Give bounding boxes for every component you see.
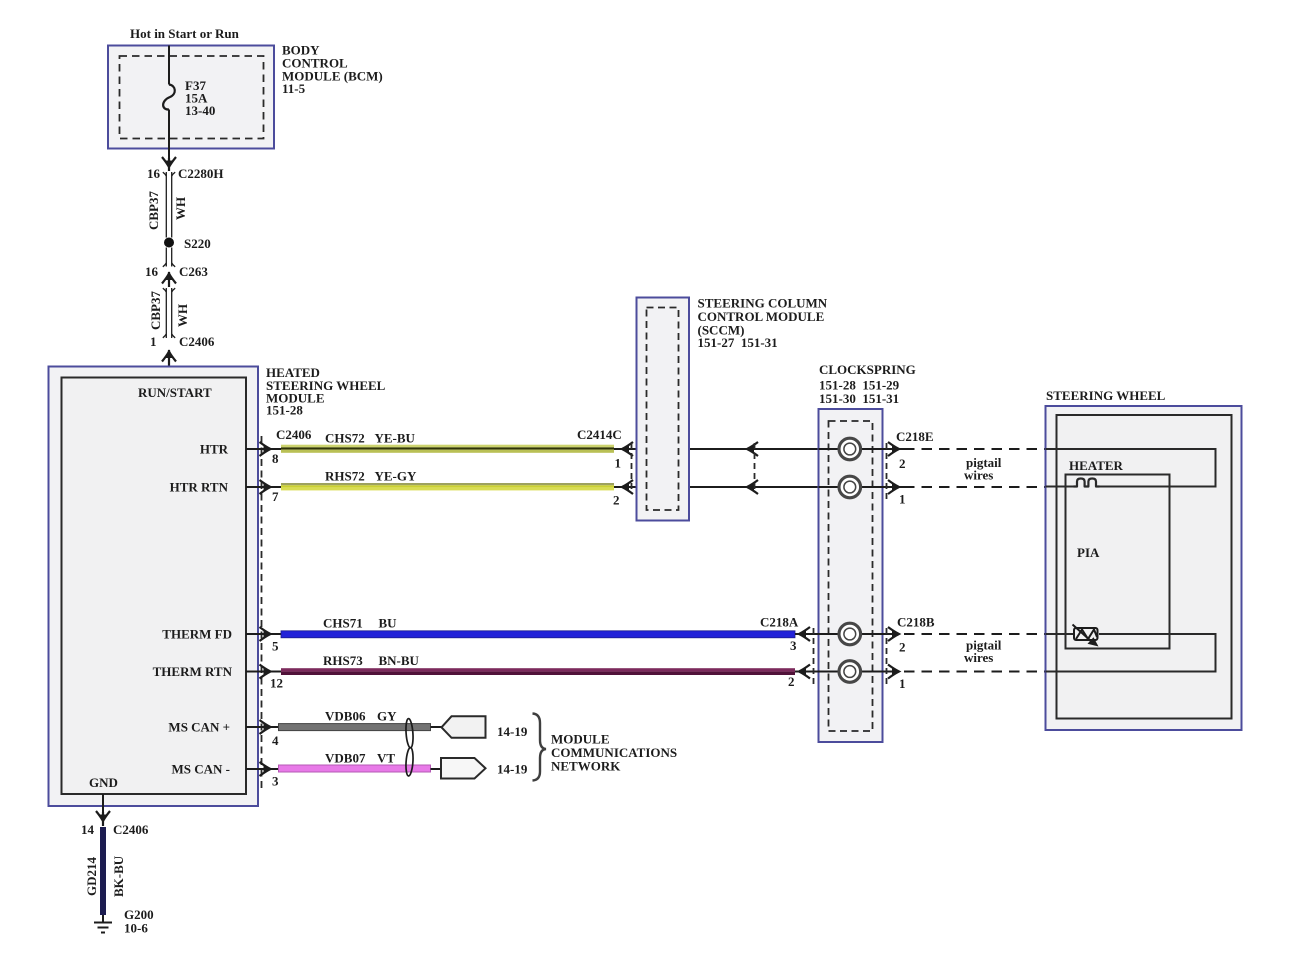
clockspring inner dashed box [829, 421, 873, 731]
svg-text:1: 1 [150, 334, 157, 349]
svg-text:16: 16 [147, 166, 161, 181]
svg-text:GND: GND [89, 775, 118, 790]
svg-text:14-19: 14-19 [497, 724, 528, 739]
wire CBP37 WH (double line) BCM to S220 [166, 172, 171, 238]
wire CHS71 BU [281, 631, 795, 638]
svg-text:C2280H: C2280H [178, 166, 224, 181]
svg-text:13-40: 13-40 [185, 103, 215, 118]
thermistor loop wiring [1046, 634, 1216, 672]
wire: feed into fuse [168, 46, 170, 85]
svg-text:BU: BU [379, 616, 398, 631]
wire: pigtail dashed HTR to wheel [904, 448, 1046, 450]
svg-text:2: 2 [899, 640, 906, 655]
svg-text:HEATER: HEATER [1069, 458, 1124, 473]
wire GD214 BK-BU [100, 827, 106, 915]
heater element (resistive squiggle) [1074, 479, 1100, 487]
steering wheel inner box [1057, 415, 1232, 719]
connector C2406 dashed face line [261, 436, 263, 791]
svg-text:PIA: PIA [1077, 545, 1100, 560]
connector arrow left C218A pin2 [799, 665, 810, 679]
PIA box [1066, 475, 1170, 649]
connector arrow right MS CAN + [260, 720, 271, 734]
wire: S220 to C263 (double line) [166, 248, 171, 267]
svg-text:5: 5 [272, 639, 279, 654]
svg-text:151-27 151-31: 151-27 151-31 [698, 335, 778, 350]
wire: HTR RTN pin lead [246, 486, 281, 488]
wire: pigtail dashed HTR RTN to wheel [904, 486, 1046, 488]
connector arrow up at C2406 [162, 350, 176, 366]
svg-text:C2406: C2406 [179, 334, 215, 349]
wire flares at C263 top [163, 263, 175, 267]
svg-text:1: 1 [899, 676, 906, 691]
svg-text:RHS72: RHS72 [325, 469, 365, 484]
svg-text:CHS71: CHS71 [323, 616, 363, 631]
wire RHS72 YE-GY [281, 483, 614, 490]
module U3: SCCM outer box [637, 298, 690, 521]
wire: GND stem out of module [102, 794, 104, 812]
svg-text:C263: C263 [179, 264, 208, 279]
svg-text:S220: S220 [184, 236, 211, 251]
wire: HTR thin line through SCCM to clockspring [614, 448, 905, 450]
connector arrow right C218E pin1 [888, 480, 899, 494]
svg-text:1: 1 [615, 456, 622, 471]
svg-text:14: 14 [81, 822, 95, 837]
svg-text:MS CAN -: MS CAN - [172, 762, 231, 777]
wire: MS CAN - pin lead [246, 768, 281, 770]
clockspring terminal row3 [839, 623, 861, 645]
wire flares at C2280H [163, 172, 175, 176]
connector arrow up at C263 [162, 272, 176, 287]
svg-text:1: 1 [899, 492, 906, 507]
inline connector arrows mid-span HTR [747, 442, 758, 456]
connector arrow right THERM FD [260, 627, 271, 641]
svg-text:10-6: 10-6 [124, 921, 148, 936]
connector arrow right HTR RTN [260, 480, 271, 494]
svg-text:7: 7 [272, 489, 279, 504]
connector arrow down at C2280H [162, 157, 176, 171]
connector C2414C dashed face [631, 443, 633, 493]
wire: HTR RTN thin line through SCCM to clockspring [614, 486, 905, 488]
svg-text:C218E: C218E [896, 429, 934, 444]
wire flares above C2406 label [163, 334, 175, 338]
off-page connector (left-pointing) MS CAN + [442, 716, 486, 738]
svg-text:2: 2 [613, 493, 620, 508]
svg-text:12: 12 [270, 676, 283, 691]
connector arrow right C218B pin2 [888, 627, 899, 641]
connector arrow left C2414C pin2 [622, 480, 633, 494]
mid connector dashed face [754, 443, 756, 493]
wire RHS73 BN-BU [281, 668, 795, 675]
wire: HTR pin lead [246, 448, 281, 450]
svg-text:3: 3 [272, 774, 279, 789]
svg-text:C2406: C2406 [276, 427, 312, 442]
wire flares below C263 arrow [163, 288, 175, 292]
connector arrow left C218A pin3 [799, 627, 810, 641]
svg-text:VT: VT [377, 751, 395, 766]
inline connector arrows mid-span HTR RTN [747, 480, 758, 494]
svg-text:CHS72: CHS72 [325, 431, 365, 446]
svg-text:11-5: 11-5 [282, 81, 306, 96]
svg-text:THERM FD: THERM FD [162, 627, 232, 642]
wire: THERM FD pin lead [246, 633, 281, 635]
connector C218A dashed face [813, 628, 815, 685]
connector C218B dashed face [886, 628, 888, 688]
svg-text:HTR RTN: HTR RTN [170, 480, 229, 495]
svg-text:RUN/START: RUN/START [138, 385, 212, 400]
wire: into module [168, 362, 170, 378]
svg-text:RHS73: RHS73 [323, 653, 363, 668]
twisted pair symbol [405, 718, 414, 776]
svg-text:GD214: GD214 [84, 857, 99, 897]
wire: THERM RTN pin lead [246, 671, 281, 673]
svg-text:16: 16 [145, 264, 159, 279]
wire: pigtail dashed THERM FD to wheel [904, 633, 1046, 635]
svg-text:C2406: C2406 [113, 822, 149, 837]
svg-text:HTR: HTR [200, 442, 229, 457]
svg-text:3: 3 [790, 638, 797, 653]
svg-text:VDB07: VDB07 [325, 751, 366, 766]
BCM inner dashed box [120, 56, 264, 139]
SCCM inner dashed box [647, 308, 679, 511]
connector arrow down at C2406 (GND) [96, 811, 110, 826]
svg-text:MS CAN +: MS CAN + [168, 720, 230, 735]
svg-text:NETWORK: NETWORK [551, 759, 621, 774]
svg-text:THERM RTN: THERM RTN [153, 664, 233, 679]
connector C218E dashed face [886, 443, 888, 500]
connector arrow right C218E pin2 [888, 442, 899, 456]
svg-text:WH: WH [175, 304, 190, 327]
off-page connector (right-pointing) MS CAN - [441, 758, 486, 779]
wire VDB07 VT [279, 765, 431, 772]
connector arrow right MS CAN - [260, 762, 271, 776]
wire: MS CAN + link to network connector [431, 726, 443, 728]
svg-text:151-30 151-31: 151-30 151-31 [819, 391, 899, 406]
connector arrow right THERM RTN [260, 665, 271, 679]
wire: pigtail dashed THERM RTN to wheel [904, 671, 1046, 673]
clockspring terminal row2 [839, 476, 861, 498]
svg-text:4: 4 [272, 733, 279, 748]
wire: BCM output stem [168, 149, 170, 159]
module U5: steering wheel outer box [1046, 406, 1242, 730]
svg-text:CBP37: CBP37 [146, 191, 161, 231]
svg-text:Hot in Start or Run: Hot in Start or Run [130, 26, 240, 41]
ground G200 [94, 915, 112, 933]
svg-text:CLOCKSPRING: CLOCKSPRING [819, 362, 916, 377]
svg-text:CBP37: CBP37 [148, 291, 163, 331]
svg-text:wires: wires [964, 468, 993, 483]
thermistor sensor symbol [1073, 625, 1098, 643]
svg-text:YE-BU: YE-BU [375, 431, 416, 446]
wire: THERM FD line into clockspring [795, 633, 898, 635]
svg-text:C218B: C218B [897, 615, 935, 630]
clockspring terminal row1 [839, 438, 861, 460]
wire: MS CAN + pin lead [246, 726, 281, 728]
module U2: Heated Steering Wheel Module outer box [49, 367, 259, 807]
wire CBP37 WH (double line) C263 to C2406 [166, 288, 171, 338]
module U1: Body Control Module (BCM) outer box [108, 46, 274, 149]
clockspring wire rows through box [819, 448, 899, 450]
svg-text:STEERING WHEEL: STEERING WHEEL [1046, 388, 1166, 403]
svg-text:VDB06: VDB06 [325, 709, 366, 724]
svg-text:BN-BU: BN-BU [379, 653, 420, 668]
svg-text:BK-BU: BK-BU [111, 855, 126, 897]
svg-text:2: 2 [788, 674, 795, 689]
connector arrow left C2414C pin1 [622, 442, 633, 456]
HSWM inner box [62, 378, 247, 795]
svg-text:2: 2 [899, 456, 906, 471]
module U4: clockspring outer box [819, 409, 883, 742]
wire: THERM RTN line into clockspring [795, 671, 898, 673]
wire: MS CAN - link to network connector [431, 768, 443, 770]
svg-text:C2414C: C2414C [577, 427, 622, 442]
svg-text:151-28: 151-28 [266, 403, 303, 418]
svg-text:WH: WH [173, 197, 188, 220]
fuse F37 15A 13-40 [163, 85, 175, 110]
connector arrow right HTR [260, 442, 271, 456]
wire VDB06 GY [279, 724, 431, 731]
wire: fuse to box bottom [168, 110, 170, 149]
svg-text:GY: GY [377, 709, 397, 724]
brace for 14-19 rows [533, 714, 547, 781]
svg-text:wires: wires [964, 650, 993, 665]
svg-text:YE-GY: YE-GY [375, 469, 418, 484]
svg-text:8: 8 [272, 451, 279, 466]
svg-text:C218A: C218A [760, 615, 799, 630]
heater loop wiring [1046, 449, 1216, 487]
connector arrow right C218B pin1 [888, 665, 899, 679]
splice S220 [164, 238, 174, 248]
wire CHS72 YE-BU [281, 445, 614, 453]
clockspring terminal row4 [839, 661, 861, 683]
svg-text:14-19: 14-19 [497, 762, 528, 777]
